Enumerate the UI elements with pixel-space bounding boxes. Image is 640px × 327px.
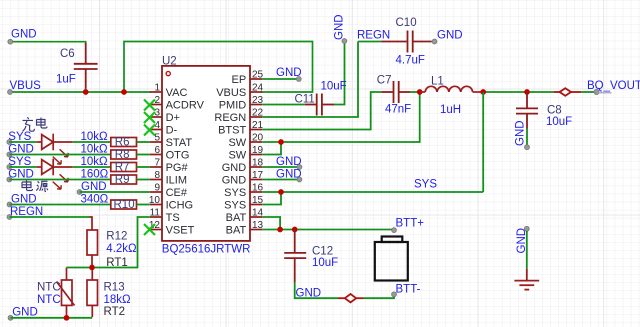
svg-text:24: 24	[252, 82, 264, 93]
svg-text:4.2kΩ: 4.2kΩ	[106, 243, 137, 255]
svg-text:10uF: 10uF	[312, 257, 338, 269]
svg-text:10kΩ: 10kΩ	[81, 156, 109, 168]
svg-text:U2: U2	[162, 55, 177, 67]
svg-text:BAT: BAT	[226, 225, 247, 237]
no-connect X pin 12	[144, 224, 155, 235]
svg-text:17: 17	[252, 170, 264, 181]
svg-text:SW: SW	[228, 137, 246, 149]
wire GND to pin9 CE#	[80, 191, 150, 193]
svg-text:BQ25616JRTWR: BQ25616JRTWR	[162, 244, 251, 256]
node C8 junction	[524, 89, 530, 95]
wire SYS pin15 riser	[262, 192, 281, 205]
svg-text:10uF: 10uF	[546, 116, 572, 128]
svg-text:PMID: PMID	[219, 100, 247, 112]
svg-text:STAT: STAT	[166, 137, 193, 149]
svg-text:R6: R6	[115, 136, 130, 148]
svg-text:BTST: BTST	[218, 125, 246, 137]
wire VBUS rail	[10, 91, 150, 93]
svg-text:18: 18	[252, 157, 264, 168]
wire GND pin18	[262, 166, 297, 168]
svg-text:SW: SW	[228, 150, 246, 162]
svg-text:10kΩ: 10kΩ	[81, 131, 109, 143]
svg-text:BQ_VOUT: BQ_VOUT	[587, 80, 640, 92]
svg-text:OTG: OTG	[166, 150, 190, 162]
svg-text:25: 25	[252, 69, 264, 80]
capacitor C10	[381, 31, 431, 53]
wire C8 to GND	[526, 129, 528, 147]
wire C7 to SW node	[410, 91, 420, 93]
wire SYS row3 to LED2	[9, 166, 36, 168]
svg-text:RT2: RT2	[104, 306, 126, 318]
svg-text:10uF: 10uF	[321, 81, 347, 93]
wire R9 to pin8	[137, 179, 150, 181]
wire TS node to NTC	[67, 267, 90, 269]
node junction VBUS riser	[121, 89, 127, 95]
svg-text:GND: GND	[8, 168, 34, 180]
svg-text:VBUS: VBUS	[216, 87, 246, 99]
svg-text:R9: R9	[115, 174, 130, 186]
svg-text:16: 16	[252, 182, 264, 193]
capacitor C11	[305, 94, 334, 116]
no-connect X pin 3	[144, 112, 155, 123]
wire REGN to C10	[358, 41, 381, 43]
svg-text:C7: C7	[377, 74, 392, 86]
netport diamond BQ_VOUT	[554, 88, 582, 96]
pin names left	[166, 87, 205, 237]
svg-text:VSET: VSET	[166, 225, 195, 237]
IC right pin stubs 25,24-13	[250, 79, 262, 230]
no-connect X pin 2	[144, 100, 155, 236]
svg-text:REGN: REGN	[214, 112, 246, 124]
svg-text:BTT+: BTT+	[396, 218, 425, 230]
ground symbol bottom right	[514, 226, 539, 289]
svg-text:C10: C10	[396, 17, 417, 29]
wire GND pin17	[262, 179, 297, 181]
svg-text:SYS: SYS	[224, 200, 246, 212]
svg-text:340Ω: 340Ω	[81, 193, 109, 205]
wire R6 to pin5	[137, 141, 150, 143]
svg-text:BAT: BAT	[226, 212, 247, 224]
wire TS node to pin11	[95, 217, 150, 268]
LED D? row3	[37, 159, 73, 190]
resistor R8	[111, 150, 137, 159]
svg-text:VAC: VAC	[166, 87, 188, 99]
svg-text:GND: GND	[81, 181, 107, 193]
wire C10 to GND	[431, 41, 434, 43]
svg-text:20: 20	[252, 132, 264, 143]
pin numbers right	[252, 69, 264, 231]
wire C12 bottom to BTT-	[295, 282, 338, 298]
capacitor C12	[284, 230, 306, 283]
svg-text:VBUS: VBUS	[10, 80, 42, 92]
wire LED1 to R6	[73, 141, 111, 143]
svg-text:10kΩ: 10kΩ	[81, 143, 109, 155]
wire diamond to BTT-	[364, 295, 395, 298]
svg-text:REGN: REGN	[357, 30, 390, 42]
node SW/C7/L1 junction	[417, 89, 423, 95]
svg-text:15: 15	[252, 195, 264, 206]
wire EP pin25 to GND	[262, 78, 297, 80]
ground GND symbol bars	[514, 269, 539, 290]
pin numbers left	[149, 82, 161, 231]
svg-text:D+: D+	[166, 112, 180, 124]
svg-text:GND: GND	[296, 288, 322, 300]
svg-text:NTC: NTC	[37, 281, 61, 293]
svg-text:GND: GND	[12, 307, 38, 319]
wire VBUS riser to top rail	[124, 42, 313, 93]
svg-text:23: 23	[252, 95, 264, 106]
wire SYS riser	[482, 92, 484, 192]
svg-text:GND: GND	[334, 14, 346, 40]
battery BT1	[375, 237, 408, 281]
wire GND row2 to R8	[9, 154, 111, 156]
svg-text:TS: TS	[166, 212, 180, 224]
wire GND bottom	[11, 317, 93, 319]
resistor R9	[111, 175, 137, 184]
wire PMID pin23 to C11	[262, 104, 305, 106]
node SYS junction	[278, 189, 284, 195]
LED2 emission arrows	[60, 174, 69, 182]
wire L1 out rail to BQ_VOUT	[481, 91, 554, 93]
svg-text:5: 5	[154, 132, 160, 143]
svg-text:22: 22	[252, 107, 264, 118]
resistor R10	[111, 200, 137, 209]
svg-text:R8: R8	[115, 149, 130, 161]
capacitor C6	[75, 44, 97, 89]
svg-text:L1: L1	[431, 75, 444, 87]
node BAT junction pin14	[277, 227, 283, 233]
op-amp U2 IC body BQ25616	[162, 55, 251, 255]
node junction C6/VBUS	[83, 89, 89, 95]
svg-text:GND: GND	[222, 175, 247, 187]
svg-text:7: 7	[154, 157, 160, 168]
svg-text:1uH: 1uH	[440, 104, 461, 116]
wire GND to R10	[10, 204, 111, 206]
node BAT junction C12	[292, 227, 298, 233]
svg-text:1uF: 1uF	[56, 74, 76, 86]
svg-text:13: 13	[252, 220, 264, 231]
wire to ground	[526, 231, 528, 269]
inductor L1	[420, 86, 481, 92]
wire to BQ_VOUT label	[581, 91, 596, 93]
svg-text:EP: EP	[232, 74, 247, 86]
svg-text:ICHG: ICHG	[166, 200, 194, 212]
svg-text:GND: GND	[437, 30, 463, 42]
svg-text:8: 8	[154, 170, 160, 181]
wire REGN to R12 top	[10, 216, 90, 218]
node TS junction	[89, 265, 95, 271]
node NTC/GND junction	[64, 315, 70, 321]
电源 chinese label (power)	[22, 180, 48, 192]
svg-text:C8: C8	[547, 105, 562, 117]
svg-text:21: 21	[252, 120, 264, 131]
svg-text:ILIM: ILIM	[166, 175, 187, 187]
svg-text:9: 9	[154, 182, 160, 193]
svg-text:19: 19	[252, 145, 264, 156]
wire SW pin19 riser	[262, 142, 281, 155]
svg-text:ACDRV: ACDRV	[166, 100, 205, 112]
svg-text:GND: GND	[222, 162, 247, 174]
wire C6 bottom to VBUS net	[85, 89, 87, 92]
node L1/SYS junction	[480, 89, 486, 95]
svg-text:R13: R13	[104, 281, 125, 293]
thermistor NTC	[57, 268, 75, 318]
wire R10 to pin10 ICHG	[137, 204, 150, 206]
LED1 emission arrows	[60, 149, 69, 157]
wire SYS pin16 rail	[262, 191, 483, 193]
svg-text:PG#: PG#	[166, 162, 189, 174]
IC left pin stubs 1-12	[150, 92, 162, 230]
svg-text:SYS: SYS	[414, 179, 437, 191]
svg-text:SYS: SYS	[224, 187, 246, 199]
svg-text:BTT-: BTT-	[396, 283, 421, 295]
svg-text:R10: R10	[114, 199, 135, 211]
wire BAT pin13 rail	[262, 229, 392, 231]
wire C11 to GND riser	[334, 41, 345, 105]
svg-text:160Ω: 160Ω	[81, 168, 109, 180]
wire R8 to pin6	[137, 154, 150, 156]
充电 chinese label (charging)	[23, 117, 48, 131]
svg-text:1: 1	[154, 82, 160, 93]
wire REGN pin22 riser	[262, 42, 358, 118]
svg-text:11: 11	[150, 207, 161, 218]
wire BAT pin14 riser	[262, 217, 280, 230]
wire GND row4 to R9	[9, 179, 111, 181]
svg-text:47nF: 47nF	[385, 104, 411, 116]
svg-text:GND: GND	[515, 120, 527, 146]
svg-text:GND: GND	[8, 143, 34, 155]
svg-text:C11: C11	[295, 94, 315, 106]
pin-1 marker circle	[166, 72, 170, 76]
wire SW pin20 rail	[262, 92, 419, 142]
node SW junction	[278, 139, 284, 145]
svg-text:C6: C6	[60, 48, 75, 60]
wire R7 to pin7	[137, 166, 150, 168]
resistor R6	[111, 138, 137, 147]
no-connect X pin 4	[144, 125, 155, 136]
resistor R13	[87, 270, 98, 317]
wire LED2 to R7	[73, 166, 111, 168]
svg-text:18kΩ: 18kΩ	[104, 294, 132, 306]
svg-text:GND: GND	[11, 29, 37, 41]
capacitor C8	[516, 92, 538, 129]
svg-text:CE#: CE#	[166, 187, 188, 199]
wire BTST pin21 riser to C7	[262, 92, 381, 130]
wire SYS row1 to LED1	[9, 141, 36, 143]
netport diamond GND/BTT-	[338, 294, 364, 302]
svg-text:R7: R7	[115, 161, 130, 173]
resistor R7	[111, 163, 137, 172]
resistor R12	[87, 217, 98, 268]
svg-text:NTC: NTC	[37, 294, 61, 306]
wire GND top-left to C6	[10, 42, 85, 44]
LED D? row1	[37, 134, 73, 165]
pin names right	[214, 74, 246, 237]
svg-text:C12: C12	[312, 246, 333, 258]
svg-text:GND: GND	[11, 193, 37, 205]
svg-text:R12: R12	[106, 231, 127, 243]
svg-text:10: 10	[149, 195, 161, 206]
svg-text:6: 6	[154, 145, 160, 156]
svg-text:4.7uF: 4.7uF	[396, 55, 425, 67]
capacitor C7	[381, 81, 410, 103]
svg-text:14: 14	[252, 207, 264, 218]
svg-text:D-: D-	[166, 125, 178, 137]
